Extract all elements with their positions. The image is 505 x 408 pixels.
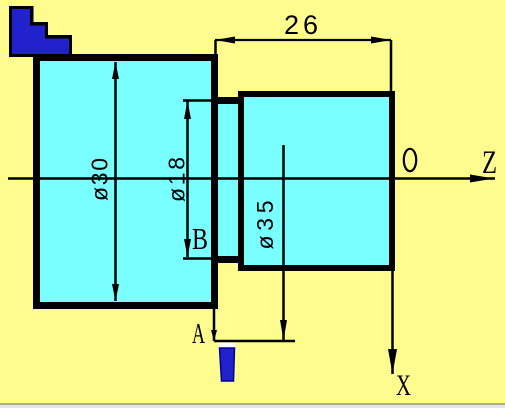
svg-text:A: A xyxy=(192,319,205,350)
svg-text:ø30: ø30 xyxy=(87,158,113,201)
svg-text:ø35: ø35 xyxy=(252,201,278,250)
svg-text:B: B xyxy=(192,221,208,256)
svg-text:X: X xyxy=(396,369,411,402)
svg-text:Z: Z xyxy=(482,145,497,181)
svg-text:ø18: ø18 xyxy=(164,157,190,202)
